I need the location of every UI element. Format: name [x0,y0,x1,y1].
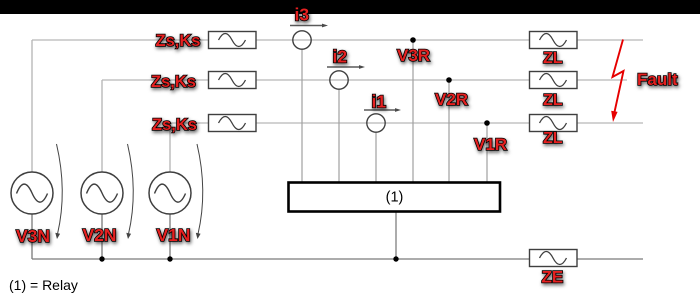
line impedance ZL phase1 box [530,115,578,132]
svg-text:i2: i2 [333,47,348,67]
svg-text:V1N: V1N [157,225,191,245]
svg-text:V1R: V1R [474,135,507,154]
svg-text:V3N: V3N [16,226,50,246]
svg-text:i3: i3 [295,5,310,25]
svg-text:Zs,Ks: Zs,Ks [152,116,197,134]
svg-text:Fault: Fault [637,70,678,89]
rotation arc arrow at V2N [126,144,133,239]
svg-text:(1): (1) [386,190,404,206]
wire: phase 3 bus line L1 [32,39,643,41]
wire: relay neutral stub [395,212,397,259]
wire: node V3R column to relay [412,40,414,182]
relay box U1 [289,183,501,212]
svg-text:i1: i1 [372,92,387,112]
wire: left drop to source V2N [101,80,103,259]
svg-text:V3R: V3R [397,46,430,65]
rotation arc arrow at V3N [55,144,62,239]
current transformer i2 [330,71,348,89]
svg-text:ZE: ZE [542,268,564,287]
current transformer i1 [367,114,385,132]
node V2R junction dot [446,77,452,83]
svg-text:ZL: ZL [543,92,563,109]
svg-text:V2R: V2R [435,90,468,109]
label arrow i3 [290,24,328,28]
svg-text:Zs,Ks: Zs,Ks [151,73,196,91]
rotation arc arrow at V1N [196,144,203,239]
line impedance ZL phase3 box [530,32,578,49]
node V3R junction dot [410,37,416,43]
node: bottom junction V2N [99,256,104,261]
impedance Zs,Ks phase2 box [209,72,257,89]
node V1R junction dot [484,120,490,126]
node: bottom junction V1N [167,256,172,261]
wire: CT i2 column to relay [338,89,340,182]
label arrow i2 [327,65,365,69]
AC source V2N [81,172,123,214]
svg-text:Zs,Ks: Zs,Ks [156,32,201,50]
AC source V3N [11,172,53,214]
label arrow i1 [364,108,401,112]
AC source V1N [149,172,191,214]
impedance Zs,Ks phase1 box [209,115,257,132]
wire: phase 2 bus line L2 [102,79,627,81]
fault lightning arrow [611,40,623,123]
wire: CT i1 column to relay [375,132,377,182]
wire: neutral return bottom line [32,258,643,260]
top black title bar [0,0,700,14]
wire: CT i3 column to relay [301,49,303,182]
earth impedance ZE box [530,250,578,267]
wire: node V1R column to relay [486,123,488,182]
svg-text:V2N: V2N [83,225,117,245]
wire: left drop to source V3N [31,40,33,259]
wire: node V2R column to relay [448,80,450,182]
svg-text:ZL: ZL [543,50,563,67]
svg-text:(1) = Relay: (1) = Relay [9,277,78,293]
wire: left drop to source V1N [169,123,171,259]
impedance Zs,Ks phase3 box [209,32,257,49]
current transformer i3 [293,31,311,49]
wire: phase 1 bus line L3 [170,122,643,124]
svg-text:ZL: ZL [543,130,563,147]
line impedance ZL phase2 box [530,72,578,89]
node: bottom junction relay [393,256,398,261]
